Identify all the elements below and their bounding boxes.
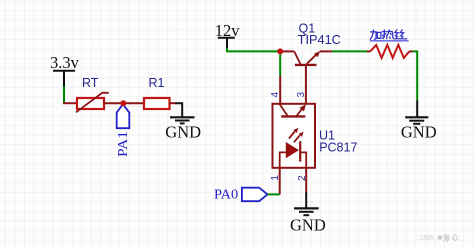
pin 2 of U1 bbox=[305, 168, 307, 192]
svg-text:R1: R1 bbox=[149, 76, 165, 90]
svg-text:PC817: PC817 bbox=[319, 140, 357, 154]
svg-text:4: 4 bbox=[270, 92, 281, 98]
port PA0 bbox=[214, 187, 268, 202]
LED triangle bbox=[286, 143, 298, 158]
pin 1 of U1 bbox=[279, 168, 281, 195]
label 加热丝 (drawn glyphs) bbox=[370, 30, 407, 40]
wire heater to ground bbox=[413, 51, 418, 100]
svg-text:PA1: PA1 bbox=[116, 131, 131, 157]
svg-text:CSDN: CSDN bbox=[420, 235, 434, 242]
svg-text:TIP41C: TIP41C bbox=[298, 33, 341, 47]
pin 4 of U1 bbox=[279, 76, 281, 104]
photo-transistor base bar bbox=[281, 115, 305, 117]
LED anode line bbox=[280, 152, 287, 167]
ground GND opto bbox=[290, 192, 326, 235]
LED cathode bar bbox=[299, 141, 301, 161]
pin heater left bbox=[367, 50, 370, 52]
pin RT left bbox=[63, 102, 77, 104]
svg-text:1: 1 bbox=[270, 175, 281, 181]
wire Q1 emitter to heater bbox=[332, 50, 367, 52]
wire 12v to junction bbox=[227, 48, 280, 51]
photo-transistor collector diagonal bbox=[280, 104, 288, 116]
svg-text:PA0: PA0 bbox=[214, 187, 238, 202]
LED cathode to pin 2 bbox=[300, 152, 306, 167]
wire PA0 to pin 1 bbox=[268, 193, 280, 195]
wire junction down to U1 pin 4 bbox=[279, 51, 281, 75]
node junction RT/R1/PA1 bbox=[120, 100, 126, 106]
svg-text:GND: GND bbox=[165, 123, 201, 142]
photo-transistor emitter with arrow bbox=[297, 107, 304, 116]
resistor heater 加热丝 bbox=[370, 30, 410, 58]
power port 12v bbox=[215, 21, 241, 48]
pin RT right / R1 left bbox=[104, 102, 144, 104]
svg-text:3.3v: 3.3v bbox=[50, 53, 80, 72]
svg-text:GND: GND bbox=[401, 122, 437, 141]
port PA1 bbox=[116, 104, 131, 157]
node junction 12v bbox=[277, 48, 283, 54]
light arrow 1 bbox=[289, 132, 295, 139]
resistor RT bbox=[76, 76, 109, 112]
light arrow 2 bbox=[294, 135, 300, 142]
resistor R1 bbox=[144, 76, 170, 109]
svg-text:3: 3 bbox=[296, 92, 307, 98]
ground GND left bbox=[165, 103, 201, 141]
watermark CSDN bbox=[420, 234, 457, 242]
pin R1 right bbox=[170, 102, 177, 104]
pin heater right bbox=[409, 50, 412, 52]
wire 3.3v to RT bbox=[63, 87, 65, 104]
svg-text:GND: GND bbox=[290, 215, 326, 234]
pin 3 of U1 (Q1 base) bbox=[305, 66, 307, 104]
ground GND heater bbox=[401, 100, 437, 141]
svg-text:2: 2 bbox=[297, 175, 308, 181]
transistor Q1 bbox=[280, 22, 341, 65]
svg-text:RT: RT bbox=[82, 76, 99, 90]
power port 3.3v bbox=[50, 53, 80, 86]
optocoupler U1 bbox=[273, 104, 358, 168]
